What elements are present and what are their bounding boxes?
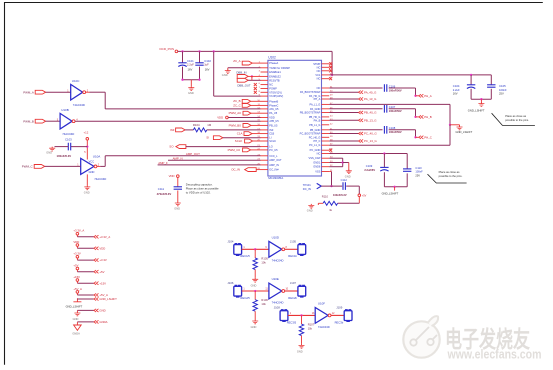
svg-text:NC: NC <box>317 77 321 81</box>
svg-text:PC_40_G: PC_40_G <box>364 132 377 136</box>
svg-text:GND: GND <box>251 325 257 329</box>
ground left of R110 <box>307 203 323 212</box>
port PA_H0_G <box>329 90 377 94</box>
svg-text:DBB_OUT: DBB_OUT <box>237 84 251 88</box>
svg-text:PA_L1_G: PA_L1_G <box>309 102 320 106</box>
svg-text:PA_13_G: PA_13_G <box>364 97 377 101</box>
power port +3.3V_A <box>73 229 110 239</box>
svg-text:1uF: 1uF <box>204 62 209 66</box>
svg-text:GND: GND <box>89 170 95 174</box>
svg-text:1M: 1M <box>207 123 212 127</box>
power port GNDA <box>72 320 107 335</box>
wire C112 to +5V node <box>346 186 366 197</box>
port PH_C <box>414 135 432 139</box>
svg-text:3: 3 <box>259 71 261 73</box>
svg-text:PGMP: PGMP <box>269 87 277 91</box>
svg-text:GNDA: GNDA <box>99 320 107 324</box>
svg-text:GND_LSHIFT: GND_LSHIFT <box>382 192 399 196</box>
port ZC_C <box>233 103 260 107</box>
wire DCD_POS drop to IC pin <box>214 51 261 96</box>
svg-text:NC: NC <box>317 69 321 73</box>
svg-text:8: 8 <box>259 91 261 93</box>
svg-text:GND: GND <box>46 151 52 155</box>
no-connect marks IC right pins <box>329 62 332 151</box>
svg-text:C111: C111 <box>158 187 165 191</box>
wire R110 loop <box>338 197 360 204</box>
ground below C101 C102 <box>188 86 194 95</box>
svg-text:TP101: TP101 <box>303 183 311 187</box>
svg-text:9: 9 <box>265 247 267 249</box>
svg-text:PH_C: PH_C <box>424 135 432 139</box>
capacitor C102 <box>195 51 211 79</box>
svg-text:+12: +12 <box>84 130 89 134</box>
svg-text:49: 49 <box>330 94 333 96</box>
note place close to pins lower <box>428 170 467 183</box>
svg-text:U10E: U10E <box>272 277 279 281</box>
connector J105 <box>288 239 305 258</box>
svg-text:+5V: +5V <box>99 270 104 274</box>
svg-text:13: 13 <box>312 313 315 315</box>
svg-text:AMP_F: AMP_F <box>158 161 168 165</box>
svg-text:470nF/6.3V: 470nF/6.3V <box>157 192 172 196</box>
wire inverter to J105 <box>285 248 298 250</box>
port PWM_C <box>22 165 45 169</box>
ground below R107 <box>297 336 305 354</box>
svg-text:10k: 10k <box>308 327 313 331</box>
ground GND_LSHIFT under C104 <box>468 102 485 113</box>
inverter U10C <box>71 79 89 107</box>
svg-text:7: 7 <box>259 87 261 89</box>
svg-text:U10D: U10D <box>272 235 279 239</box>
connector J108 <box>274 306 297 325</box>
resistor R110 <box>322 195 338 212</box>
svg-text:100nF/50V: 100nF/50V <box>389 130 402 134</box>
capacitor C111 <box>157 187 182 202</box>
svg-text:NC: NC <box>317 152 321 156</box>
svg-text:REC2/5: REC2/5 <box>240 296 250 300</box>
power port GND <box>73 309 106 321</box>
svg-text:1k: 1k <box>329 208 332 212</box>
power port +15V <box>73 275 106 285</box>
svg-text:J109: J109 <box>336 306 343 310</box>
svg-text:25V: 25V <box>415 173 420 177</box>
wire AMP_N to IC <box>168 157 261 161</box>
svg-text:VDD: VDD <box>217 116 223 120</box>
wire GND to IC pin 2 <box>228 68 261 70</box>
svg-text:NC: NC <box>317 86 321 90</box>
svg-text:10: 10 <box>286 289 289 291</box>
svg-text:PH_B: PH_B <box>424 115 432 119</box>
svg-text:Place as close as: Place as close as <box>505 114 527 118</box>
port OC_IN <box>231 168 260 172</box>
svg-text:PhaseA: PhaseA <box>269 61 278 65</box>
svg-text:42: 42 <box>330 123 333 125</box>
svg-text:1: 1 <box>243 289 245 291</box>
ground below R106 <box>251 311 259 329</box>
svg-text:R105: R105 <box>261 256 268 260</box>
capacitor C104 <box>453 75 476 99</box>
svg-text:U10F: U10F <box>318 301 325 305</box>
svg-text:1: 1 <box>243 247 245 249</box>
svg-text:C108: C108 <box>389 126 396 130</box>
svg-text:C1A: C1A <box>237 132 243 136</box>
wire J106 to inverter <box>242 289 269 292</box>
svg-text:PH_A: PH_A <box>424 94 432 98</box>
resistor R106 <box>253 291 268 311</box>
wire J104 to inverter <box>242 247 269 250</box>
power VDD node at IC pin <box>217 116 260 120</box>
svg-text:39: 39 <box>330 136 333 138</box>
svg-text:100nF: 100nF <box>499 88 507 92</box>
svg-text:GNDA: GNDA <box>72 331 80 335</box>
wire U10A output to AMP_OUT wire <box>97 156 105 167</box>
capacitor C101 <box>178 51 194 79</box>
capacitor C112 <box>333 178 347 197</box>
power VDD node for C111 <box>169 174 180 187</box>
wire inverter to J107 <box>285 290 298 292</box>
connector J106 <box>227 281 250 300</box>
wire U10B output to IC <box>75 120 260 122</box>
svg-text:R1S0/TB: R1S0/TB <box>269 78 280 82</box>
wire inverter to J109 <box>331 314 344 316</box>
svg-text:PB_L1_G: PB_L1_G <box>309 123 320 127</box>
svg-text:ZC_A: ZC_A <box>233 59 240 63</box>
svg-text:100nF/50V: 100nF/50V <box>389 88 402 92</box>
op-amp U102 microcontroller body <box>257 56 333 181</box>
ground below R105 <box>251 270 259 288</box>
svg-text:6: 6 <box>259 83 261 85</box>
no-connect marks IC left pins <box>254 83 257 94</box>
power port +3.3V <box>73 252 107 263</box>
capacitor C103 <box>55 138 88 158</box>
svg-text:PWM_C0: PWM_C0 <box>228 148 241 152</box>
wire U10C output to IC <box>86 92 261 109</box>
svg-text:xPB_U5: xPB_U5 <box>269 119 279 123</box>
svg-text:PC_U5: PC_U5 <box>269 148 278 152</box>
inverter U10E <box>265 277 288 304</box>
resistor R105 <box>253 249 268 269</box>
svg-text:U102: U102 <box>268 56 276 60</box>
svg-text:GND: GND <box>99 309 105 313</box>
svg-text:2.2uF/6V: 2.2uF/6V <box>364 168 375 172</box>
svg-text:PWM_C: PWM_C <box>22 165 33 169</box>
svg-text:VDD: VDD <box>269 116 275 120</box>
svg-text:74HC04D: 74HC04D <box>318 325 330 329</box>
svg-text:2.2uF: 2.2uF <box>453 88 460 92</box>
svg-text:GND: GND <box>251 283 257 287</box>
svg-text:PH_B: PH_B <box>314 118 321 122</box>
ground GND_LSHIFT under C109 <box>382 187 399 196</box>
svg-text:GND: GND <box>222 73 228 77</box>
svg-text:+3.3V_A: +3.3V_A <box>99 235 110 239</box>
svg-text:R110: R110 <box>322 195 329 199</box>
svg-text:J106: J106 <box>227 281 234 285</box>
svg-text:GND6: GND6 <box>313 165 321 169</box>
svg-text:SCLK: SCLK <box>235 139 243 143</box>
svg-text:GND_LSHIFT: GND_LSHIFT <box>99 297 117 301</box>
svg-text:REC2b: REC2b <box>288 296 297 300</box>
svg-text:C112: C112 <box>341 178 348 182</box>
wire TP101 to C112 <box>321 185 342 187</box>
svg-text:GND: GND <box>307 208 313 212</box>
port C1A <box>237 132 261 136</box>
svg-text:U10B: U10B <box>61 108 69 112</box>
svg-text:11: 11 <box>265 289 268 291</box>
svg-text:possible to the pins.: possible to the pins. <box>439 174 463 178</box>
svg-text:R106: R106 <box>261 298 268 302</box>
svg-text:DBB_IN: DBB_IN <box>236 70 246 74</box>
wire PA gate drive with C106 <box>329 88 415 96</box>
svg-text:+5V: +5V <box>362 194 367 197</box>
wire DCD_POS rail <box>178 50 334 76</box>
svg-text:J105: J105 <box>290 239 297 243</box>
port ZC_B <box>233 99 260 103</box>
svg-text:VC1: VC1 <box>315 73 321 77</box>
port to resistor R104 <box>170 128 185 132</box>
power port +5V_A <box>73 287 108 297</box>
svg-text:PC_H0_G: PC_H0_G <box>309 135 321 139</box>
wire cap bottoms to ground <box>181 79 200 87</box>
svg-text:OC_IN: OC_IN <box>231 168 240 172</box>
port SO <box>169 145 260 149</box>
svg-text:ENABLE1: ENABLE1 <box>269 70 281 74</box>
svg-text:PC_L1_G: PC_L1_G <box>309 143 320 147</box>
note decoupling capacitor <box>186 182 219 194</box>
ground below C111 <box>174 202 181 211</box>
capacitor C110 <box>403 166 423 178</box>
svg-text:GND: GND <box>73 317 79 321</box>
svg-text:REC1b: REC1b <box>288 254 297 258</box>
svg-text:+3.3V_A: +3.3V_A <box>73 229 84 233</box>
svg-text:VCC: VCC <box>89 159 95 163</box>
svg-text:REC3/5: REC3/5 <box>287 320 297 324</box>
svg-text:GND_LSHIFT: GND_LSHIFT <box>456 130 473 134</box>
svg-text:REC3b: REC3b <box>335 320 344 324</box>
svg-text:GND: GND <box>188 91 194 95</box>
svg-text:PB_40_G: PB_40_G <box>364 111 377 115</box>
svg-text:GND: GND <box>84 191 90 195</box>
svg-text:PA_40_G: PA_40_G <box>364 90 377 94</box>
svg-text:74AC04D: 74AC04D <box>94 177 106 181</box>
svg-text:PC_13_G: PC_13_G <box>364 139 377 143</box>
svg-text:74HC04D: 74HC04D <box>272 259 284 263</box>
ground IC VSS <box>345 169 352 178</box>
svg-text:PA_GND: PA_GND <box>310 107 320 111</box>
svg-text:C110: C110 <box>415 166 422 170</box>
inverter U10D <box>265 235 287 262</box>
svg-text:GND_LSHIFT: GND_LSHIFT <box>468 109 485 113</box>
svg-text:REC1/5: REC1/5 <box>240 254 250 258</box>
svg-text:100nF/50V: 100nF/50V <box>389 109 402 113</box>
svg-text:AMP_OUT: AMP_OUT <box>186 152 200 156</box>
watermark elecfans logo and text <box>403 316 541 362</box>
svg-text:PhaseC: PhaseC <box>269 103 278 107</box>
svg-text:16V: 16V <box>453 91 458 95</box>
note place close to pins upper <box>492 113 535 125</box>
svg-text:C109: C109 <box>366 164 373 168</box>
svg-text:MC33035A: MC33035A <box>268 176 283 180</box>
svg-text:J108: J108 <box>274 306 281 310</box>
svg-text:GND: GND <box>297 349 303 353</box>
svg-text:INF: INF <box>269 128 274 132</box>
connector J104 <box>227 239 250 258</box>
port PH_B <box>414 115 431 119</box>
ground below U10A <box>84 174 91 194</box>
svg-text:16V: 16V <box>205 68 210 72</box>
capacitor C106 <box>384 84 402 92</box>
svg-text:10k: 10k <box>261 302 266 306</box>
connector J109 <box>335 306 352 325</box>
net label DBB_IN <box>236 70 246 74</box>
wire PWM_B to U10B <box>46 118 60 121</box>
svg-text:C105: C105 <box>499 84 506 88</box>
svg-text:PWM_A: PWM_A <box>23 90 34 94</box>
wire PC gate drive with C108 <box>329 130 415 138</box>
wire J108 to inverter <box>288 313 315 316</box>
svg-text:10k: 10k <box>261 261 266 265</box>
svg-text:16V: 16V <box>188 68 193 72</box>
svg-text:VT(8V12V): VT(8V12V) <box>269 90 282 94</box>
ground GND_LSHIFT mid <box>456 126 473 135</box>
svg-text:PH_A: PH_A <box>314 97 321 101</box>
svg-text:to VDD pin of U102.: to VDD pin of U102. <box>186 190 211 194</box>
svg-text:PA_BOOTSTRAP: PA_BOOTSTRAP <box>300 90 321 94</box>
port ZC_A <box>233 59 260 65</box>
svg-text:J104: J104 <box>227 239 234 243</box>
svg-text:44: 44 <box>330 115 333 117</box>
svg-text:100nF/6.3V: 100nF/6.3V <box>333 193 347 197</box>
svg-text:PWM_A0: PWM_A0 <box>229 111 242 115</box>
svg-text:PB_13_G: PB_13_G <box>364 118 377 122</box>
ground on IC pin 2 wire <box>222 69 231 77</box>
capacitor C107 <box>384 105 402 113</box>
svg-text:2.2uF: 2.2uF <box>187 62 194 66</box>
svg-text:ENABLE2: ENABLE2 <box>269 74 281 78</box>
power port VDD <box>73 240 105 250</box>
svg-text:OC_IN#: OC_IN# <box>269 168 279 172</box>
svg-text:C106: C106 <box>389 84 396 88</box>
svg-text:PH_C: PH_C <box>314 139 321 143</box>
svg-text:PWM_B0: PWM_B0 <box>229 123 242 127</box>
wire VSS pins to ground <box>329 158 349 170</box>
wire VCAP to C104 C105 <box>329 74 491 76</box>
inverter U10A <box>77 154 106 181</box>
power +12 node for U10A <box>84 130 89 159</box>
svg-text:SCLK: SCLK <box>269 139 276 143</box>
wire AMP_F to IC <box>158 161 261 165</box>
svg-text:possible to the pins.: possible to the pins. <box>505 118 529 122</box>
svg-text:PB_BOOTSTRAP: PB_BOOTSTRAP <box>300 111 321 115</box>
svg-text:U10A: U10A <box>93 154 101 158</box>
svg-text:GND_LSHIFT: GND_LSHIFT <box>66 305 83 309</box>
inverter U10B <box>60 108 78 136</box>
wire rail lower to GND_LSHIFT <box>329 144 450 146</box>
svg-text:C104: C104 <box>453 84 460 88</box>
svg-text:VDD: VDD <box>99 246 105 250</box>
svg-text:VSS_CAP: VSS_CAP <box>309 156 321 160</box>
svg-text:R104: R104 <box>193 123 200 127</box>
svg-text:VDD: VDD <box>169 174 175 178</box>
svg-text:V3.0P(ADV): V3.0P(ADV) <box>269 94 283 98</box>
svg-text:C107: C107 <box>389 105 396 109</box>
wire VCC_L to C109 C110 <box>329 152 407 188</box>
svg-text:PB_H0_G: PB_H0_G <box>309 115 320 119</box>
svg-text:GND1: GND1 <box>313 161 321 165</box>
svg-text:PB_GND: PB_GND <box>310 128 321 132</box>
power port +5V <box>73 263 104 273</box>
port PWM_B0 <box>229 123 261 127</box>
svg-text:TGND for OPAMP: TGND for OPAMP <box>269 66 290 70</box>
svg-text:Place as close as: Place as close as <box>439 170 461 174</box>
wire PWM_A to U10C <box>46 89 71 92</box>
power port GND_LSHIFT <box>66 297 117 309</box>
svg-text:C103: C103 <box>65 138 72 142</box>
port PWM_B <box>23 119 46 123</box>
svg-text:AMP_IN: AMP_IN <box>269 163 279 167</box>
svg-text:8: 8 <box>286 247 288 249</box>
svg-text:C1B: C1B <box>269 132 274 136</box>
capacitor C109 <box>364 164 388 172</box>
wire DC_IN from IC <box>329 172 332 188</box>
net label DBB_OUT <box>237 84 251 88</box>
port SI <box>206 136 260 140</box>
port PC_L1_G <box>329 139 377 143</box>
svg-text:STMP: STMP <box>313 62 320 66</box>
port PH_A <box>414 94 431 98</box>
svg-text:100nF: 100nF <box>415 170 423 174</box>
svg-text:NC: NC <box>317 65 321 69</box>
port PWM_C0 <box>228 148 261 152</box>
testpoint TP101 <box>303 183 322 191</box>
net label DCD_POS <box>160 47 178 53</box>
svg-text:74AC04D: 74AC04D <box>62 132 74 136</box>
svg-text:DC_IN: DC_IN <box>303 187 311 191</box>
wire C104 C105 bottoms <box>471 98 491 103</box>
svg-text:U10C: U10C <box>72 79 81 83</box>
port PB_H0_G <box>329 111 377 115</box>
port PC_H0_G <box>329 132 377 136</box>
connector J107 <box>288 281 305 300</box>
port PWM_A0 <box>229 111 261 115</box>
wire GND_LSHIFT junction row <box>449 124 460 146</box>
svg-text:VCC_L: VCC_L <box>269 154 278 158</box>
svg-text:GND: GND <box>345 175 351 179</box>
svg-text:GND: GND <box>174 207 180 211</box>
svg-text:DCD_POS: DCD_POS <box>160 47 175 51</box>
svg-text:J107: J107 <box>290 281 297 285</box>
svg-text:PB_U5: PB_U5 <box>269 123 278 127</box>
svg-text:74HC04D: 74HC04D <box>272 300 284 304</box>
ground left of C103 <box>46 147 55 155</box>
svg-text:INF: INF <box>170 128 175 132</box>
svg-text:SI: SI <box>206 136 209 140</box>
svg-text:VDD: VDD <box>73 240 79 244</box>
svg-text:AMP_N: AMP_N <box>173 157 183 161</box>
capacitor C108 <box>384 126 402 134</box>
svg-text:+3.3V: +3.3V <box>99 258 107 262</box>
svg-text:PC_BOOTSTRAP: PC_BOOTSTRAP <box>300 132 321 136</box>
svg-text:R107: R107 <box>308 322 315 326</box>
wire PWM_C to U10A <box>45 165 81 167</box>
svg-text:NC: NC <box>269 83 273 87</box>
svg-text:VSS: VSS <box>315 170 320 174</box>
svg-text:5: 5 <box>84 151 86 154</box>
port PB_L1_G <box>329 118 377 122</box>
port PWM_A <box>23 90 46 94</box>
port PA_L1_G <box>329 97 377 101</box>
svg-text:PhaseB: PhaseB <box>269 99 278 103</box>
wire rail upper to GND_LSHIFT <box>329 104 450 124</box>
